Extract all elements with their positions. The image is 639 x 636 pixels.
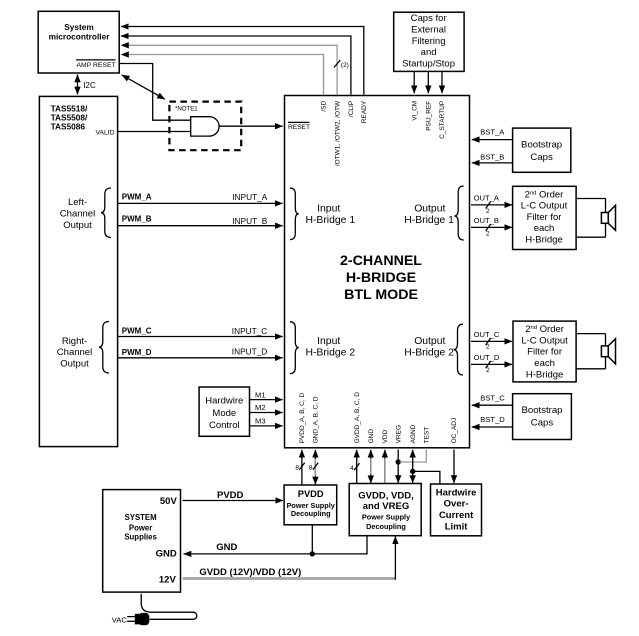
svg-text:L-C Output: L-C Output — [521, 201, 568, 212]
svg-text:BTL MODE: BTL MODE — [344, 287, 418, 303]
svg-text:TAS5086: TAS5086 — [51, 121, 86, 131]
svg-text:VDD: VDD — [382, 429, 389, 443]
svg-text:L-C Output: L-C Output — [521, 335, 568, 346]
svg-text:*NOTE1: *NOTE1 — [175, 106, 198, 113]
svg-text:PWM_C: PWM_C — [122, 327, 152, 336]
svg-text:Output: Output — [414, 204, 445, 215]
svg-text:and: and — [421, 47, 437, 58]
svg-text:Filter for: Filter for — [527, 212, 562, 223]
svg-text:Caps: Caps — [531, 417, 554, 428]
svg-text:2-CHANNEL: 2-CHANNEL — [340, 253, 422, 269]
svg-text:VAC: VAC — [112, 615, 128, 624]
svg-text:2: 2 — [486, 367, 490, 374]
svg-text:Left-: Left- — [68, 197, 87, 208]
svg-text:External: External — [411, 24, 446, 35]
svg-text:OUT_C: OUT_C — [474, 330, 500, 339]
svg-text:Input: Input — [317, 204, 340, 215]
svg-text:H-Bridge 2: H-Bridge 2 — [404, 348, 454, 359]
svg-text:Control: Control — [209, 420, 240, 431]
svg-text:Power Supply: Power Supply — [362, 513, 411, 522]
svg-text:AGND: AGND — [410, 424, 417, 443]
svg-text:each: each — [534, 223, 555, 234]
svg-text:READY: READY — [361, 100, 368, 123]
svg-text:/CLIP: /CLIP — [348, 101, 355, 117]
svg-text:H-Bridge: H-Bridge — [526, 369, 564, 380]
svg-text:VALID: VALID — [95, 129, 114, 136]
svg-text:H-Bridge 1: H-Bridge 1 — [404, 215, 454, 226]
svg-text:Filter for: Filter for — [527, 347, 562, 358]
svg-text:Channel: Channel — [57, 347, 92, 358]
svg-text:2: 2 — [486, 230, 490, 237]
svg-text:Hardwire: Hardwire — [205, 395, 243, 406]
svg-text:BST_A: BST_A — [480, 128, 505, 137]
svg-text:M3: M3 — [255, 417, 266, 426]
svg-text:OUT_D: OUT_D — [474, 353, 500, 362]
svg-text:BST_C: BST_C — [480, 393, 505, 402]
svg-text:Bootstrap: Bootstrap — [521, 140, 562, 151]
svg-text:Right-: Right- — [62, 336, 87, 347]
svg-text:2: 2 — [486, 344, 490, 351]
svg-text:PWM_B: PWM_B — [122, 215, 152, 224]
svg-text:M1: M1 — [255, 390, 266, 399]
svg-text:H-Bridge: H-Bridge — [525, 235, 563, 246]
svg-text:Power: Power — [129, 524, 152, 533]
svg-text:Current: Current — [439, 510, 474, 521]
svg-text:H-Bridge 2: H-Bridge 2 — [305, 348, 355, 359]
svg-text:TEST: TEST — [424, 427, 431, 444]
svg-text:Startup/Stop: Startup/Stop — [402, 59, 455, 70]
svg-text:OUT_B: OUT_B — [474, 216, 499, 225]
svg-text:Supplies: Supplies — [124, 533, 157, 542]
svg-text:VREG: VREG — [395, 425, 402, 443]
svg-text:H-Bridge 1: H-Bridge 1 — [305, 215, 355, 226]
svg-text:H-BRIDGE: H-BRIDGE — [346, 270, 416, 286]
svg-text:Filtering: Filtering — [412, 36, 446, 47]
svg-text:OC_ADJ: OC_ADJ — [451, 418, 458, 444]
svg-text:SYSTEM: SYSTEM — [125, 513, 157, 522]
svg-text:I2C: I2C — [83, 81, 96, 90]
svg-text:Decoupling: Decoupling — [291, 509, 331, 518]
svg-text:INPUT_A: INPUT_A — [232, 192, 268, 202]
svg-text:2: 2 — [486, 208, 490, 215]
svg-text:INPUT_B: INPUT_B — [232, 216, 268, 226]
svg-text:GND: GND — [368, 429, 375, 444]
svg-text:12V: 12V — [159, 575, 177, 586]
svg-text:Hardwire: Hardwire — [436, 487, 477, 498]
svg-text:Over-: Over- — [444, 499, 469, 510]
svg-text:Bootstrap: Bootstrap — [521, 405, 562, 416]
svg-text:Mode: Mode — [212, 408, 236, 419]
svg-text:GVDD_A, B, C, D: GVDD_A, B, C, D — [354, 392, 361, 444]
svg-text:PWM_A: PWM_A — [122, 192, 152, 201]
svg-text:OUT_A: OUT_A — [474, 194, 500, 203]
svg-text:Output: Output — [60, 359, 89, 370]
svg-text:Caps: Caps — [530, 152, 553, 163]
svg-text:PVDD: PVDD — [298, 489, 324, 499]
svg-text:Decoupling: Decoupling — [366, 522, 406, 531]
svg-text:4: 4 — [350, 465, 354, 472]
svg-text:VI_CM: VI_CM — [411, 101, 418, 121]
svg-text:RESET: RESET — [288, 124, 310, 131]
svg-text:GVDD, VDD,: GVDD, VDD, — [358, 491, 413, 502]
svg-text:8: 8 — [295, 464, 299, 471]
svg-text:AMP RESET: AMP RESET — [77, 62, 116, 69]
svg-text:PVDD_A, B, C, D: PVDD_A, B, C, D — [299, 393, 306, 444]
svg-text:GVDD (12V)/VDD (12V): GVDD (12V)/VDD (12V) — [199, 567, 301, 578]
svg-text:INPUT_C: INPUT_C — [232, 326, 268, 336]
svg-text:8: 8 — [309, 464, 313, 471]
svg-text:/SD: /SD — [321, 101, 328, 112]
svg-text:Input: Input — [317, 336, 340, 347]
svg-text:(2): (2) — [341, 62, 349, 69]
svg-text:each: each — [534, 358, 555, 369]
svg-text:GND_A, B, C, D: GND_A, B, C, D — [313, 396, 320, 443]
svg-text:Output: Output — [63, 220, 92, 231]
svg-text:M2: M2 — [255, 403, 266, 412]
svg-text:and VREG: and VREG — [363, 501, 409, 512]
svg-text:GND: GND — [156, 549, 177, 560]
svg-text:Channel: Channel — [60, 208, 95, 219]
svg-text:INPUT_D: INPUT_D — [232, 347, 268, 357]
svg-text:PWM_D: PWM_D — [122, 348, 152, 357]
svg-text:Caps for: Caps for — [411, 13, 447, 24]
svg-text:50V: 50V — [160, 496, 178, 507]
svg-text:Limit: Limit — [445, 521, 469, 532]
svg-text:BST_B: BST_B — [480, 152, 504, 161]
svg-text:PSU_REF: PSU_REF — [426, 101, 433, 131]
svg-text:GND: GND — [216, 542, 237, 553]
svg-text:Output: Output — [414, 336, 445, 347]
svg-text:BST_D: BST_D — [480, 415, 505, 424]
svg-text:/OTW1, /OTW2, /OTW: /OTW1, /OTW2, /OTW — [334, 100, 341, 166]
svg-text:microcontroller: microcontroller — [49, 32, 111, 42]
svg-text:PVDD: PVDD — [217, 490, 244, 501]
svg-text:C_STARTUP: C_STARTUP — [439, 101, 446, 139]
